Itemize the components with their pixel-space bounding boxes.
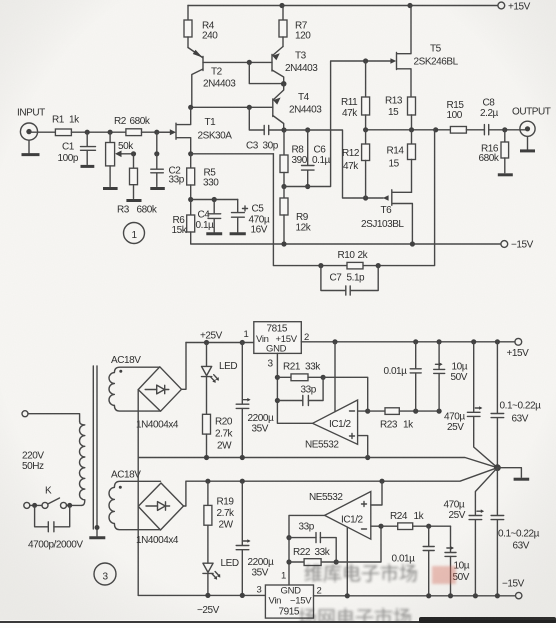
+25V rail (186, 329, 254, 345)
resistor R20 (203, 414, 234, 457)
capacitor 0.01u lower (392, 526, 435, 596)
node (85, 130, 90, 135)
capacitor C8 (480, 98, 528, 135)
wire minus input (323, 377, 368, 411)
capacitor C3 (246, 125, 284, 151)
node (363, 195, 368, 200)
resistor R12 (342, 130, 370, 198)
transistor T5 JFET 2SK246BL (397, 6, 459, 98)
-15V rail (191, 240, 534, 251)
-15V rail (314, 579, 525, 599)
capacitor C4 (196, 200, 223, 234)
capacitor 10u 50V upper (434, 342, 468, 411)
wire minus input lower (336, 526, 381, 562)
bridge rectifier 1 1N4004x4 (136, 367, 182, 431)
op-amp V+ supply wire (334, 342, 336, 412)
transistor T3 (272, 47, 318, 84)
bridge rectifier 2 1N4004x4 (136, 483, 184, 546)
capacitor 0.01u upper (384, 342, 422, 411)
node (154, 151, 159, 156)
resistor R11 (341, 61, 370, 130)
resistor R16 (479, 130, 513, 175)
capacitor 0.1-0.22u 63V lower (491, 468, 540, 596)
capacitor 0.1-0.22u 63V upper (491, 342, 541, 468)
star ground node (494, 464, 529, 479)
node (281, 184, 286, 189)
resistor R9 (280, 187, 312, 245)
node (363, 58, 368, 63)
LED 2 (203, 558, 239, 595)
resistor R2 (114, 116, 151, 136)
op-amp + input wire (358, 436, 368, 458)
capacitor 4700p/2000V (28, 505, 83, 550)
node rail A (281, 127, 286, 132)
node (281, 81, 287, 87)
resistor R7 (279, 6, 311, 47)
resistor R1 (52, 115, 80, 136)
node (321, 375, 326, 380)
capacitor C1 (58, 132, 96, 166)
resistor R8 (280, 130, 308, 187)
node (212, 197, 217, 202)
node (247, 60, 252, 65)
wire to C3 (249, 107, 264, 130)
wire (466, 129, 484, 131)
wire bridge2 plus stub (184, 505, 186, 507)
node (154, 130, 159, 135)
LED 1 (202, 343, 238, 415)
capacitor 2200u 35V lower (236, 481, 274, 595)
wire T1 source to feedback (191, 153, 274, 155)
ground rail 0V upper (138, 455, 497, 468)
wire (31, 131, 55, 133)
transformer primary winding (80, 422, 85, 506)
resistor R10 (338, 250, 369, 269)
resistor R22 (289, 547, 336, 566)
circle label 1 (124, 223, 145, 244)
resistor R23 (368, 408, 439, 431)
resistor R15 (447, 100, 467, 133)
regulator U3 7915 (257, 571, 322, 619)
node (334, 559, 339, 564)
wire (71, 131, 126, 133)
resistor R21 (277, 362, 323, 381)
transformer secondary winding 1 (109, 367, 160, 411)
node (318, 263, 323, 268)
node (108, 130, 113, 135)
wire (142, 131, 171, 133)
scan bottom bar (0, 621, 556, 623)
node (426, 524, 431, 529)
capacitor 2200u 35V upper (236, 343, 274, 458)
node (188, 197, 193, 202)
wire T3 diode connection (249, 62, 283, 83)
watermark red (298, 563, 456, 628)
op-amp U1 IC1/2 lower (309, 492, 371, 540)
transformer core (92, 366, 94, 529)
node (188, 151, 193, 156)
7815 GND pin wire (268, 353, 313, 423)
+15V output rail (301, 338, 529, 359)
wire (28, 414, 80, 422)
capacitor C6 (302, 130, 331, 187)
capacitor 33p lower (289, 522, 336, 563)
capacitor 10u 50V lower (445, 526, 470, 596)
resistor R13 (385, 96, 416, 130)
capacitor 470u 25V lower (444, 468, 498, 596)
node (131, 151, 136, 156)
transformer secondary winding 2 (109, 481, 161, 529)
ground (89, 536, 105, 539)
+15V rail (188, 2, 531, 13)
transistor T2 (188, 48, 272, 108)
wire bridge1 minus down / long vertical (137, 390, 139, 596)
wire (156, 132, 158, 154)
capacitor 470u 25V upper (444, 342, 497, 468)
wire bridge1 plus to +25V (182, 343, 187, 390)
wire rail B (366, 129, 451, 131)
circle label 3 (94, 563, 116, 585)
node (247, 105, 252, 110)
node (502, 127, 507, 132)
wire rail A to T6 gate (284, 130, 383, 198)
input jack J1 (17, 108, 55, 155)
mains terminal (22, 411, 28, 417)
capacitor C2 (150, 154, 184, 189)
feedback wire (273, 130, 434, 266)
regulator U2 7815 (254, 322, 309, 355)
transistor T6 JFET 2SJ103BL (361, 190, 412, 244)
wire level shift node to T5 gate (284, 61, 391, 187)
potentiometer 50k (103, 132, 134, 188)
resistor R5 (187, 154, 220, 200)
op-amp V- supply wire (346, 527, 348, 596)
resistor R3 (117, 154, 158, 216)
transistor T1 JFET 2SK30A (157, 107, 232, 154)
resistor R19 (204, 481, 235, 563)
node (188, 105, 193, 110)
op-amp + input wire lower (371, 481, 382, 505)
capacitor C5 electrolytic (230, 200, 270, 236)
resistor R24 (381, 511, 451, 530)
output jack (512, 107, 551, 151)
transistor T4 (191, 84, 323, 130)
switch K (24, 486, 82, 509)
op-amp U1 IC1/2 upper (305, 400, 358, 451)
capacitor 33p upper (277, 377, 323, 405)
node (413, 409, 418, 414)
capacitor C7 (321, 266, 378, 296)
wire (191, 199, 238, 201)
7915 GND pin / op-amp output wire (289, 515, 325, 585)
ground (28, 140, 30, 153)
wire 0V mid rail (186, 468, 498, 506)
resistor R14 (387, 130, 416, 193)
resistor R4 (184, 6, 218, 48)
-25V rail (138, 593, 265, 616)
resistor R6 (172, 200, 195, 245)
